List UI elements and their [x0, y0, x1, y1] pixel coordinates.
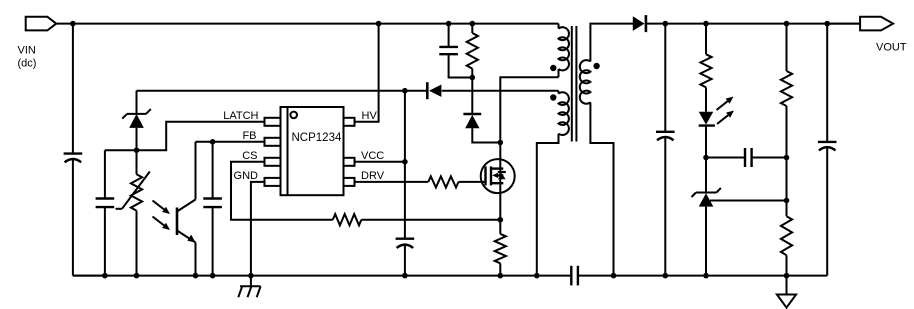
junction top rail at LED branch	[703, 21, 709, 27]
wire divider mid	[786, 106, 788, 216]
junction VCC node	[402, 159, 408, 165]
resistor R6 divider upper	[781, 71, 792, 106]
wire secondary bottom lead	[590, 102, 613, 275]
junction feedback cap node left	[703, 155, 709, 161]
junction bottom rail at aux return	[534, 273, 540, 279]
pin FB	[265, 138, 281, 146]
transformer core	[572, 26, 577, 142]
label VOUT	[876, 42, 907, 54]
capacitor C8 feedback	[745, 148, 752, 167]
junction top rail at divider	[784, 21, 790, 27]
wire output cap branch	[664, 24, 666, 276]
transformer aux winding	[559, 91, 569, 135]
junction feedback cap node right	[784, 155, 790, 161]
wire divider upper lead	[786, 24, 788, 71]
output terminal VOUT	[860, 17, 893, 31]
svg-text:VOUT: VOUT	[876, 42, 907, 54]
transformer secondary dot	[593, 63, 599, 69]
wire HV to top rail	[355, 24, 379, 122]
op IC U1 NCP1234 body	[281, 107, 344, 195]
label DRV	[361, 170, 385, 182]
IC U1 text NCP1234	[292, 132, 342, 144]
junction bottom rail at C3	[210, 273, 216, 279]
wire bottom rail secondary side	[578, 275, 827, 277]
opto light arrows	[153, 201, 171, 231]
transistor Q1 MOSFET	[481, 159, 515, 193]
pin CS	[265, 158, 281, 166]
shunt regulator TL431 D5	[692, 188, 721, 207]
capacitor C7 output (polarized)	[656, 132, 675, 141]
wire R5 to LED	[705, 87, 707, 111]
wire primary bottom lead	[558, 69, 560, 77]
wire TL431 anode to rail	[705, 207, 707, 276]
wire bottom rail primary side	[73, 275, 571, 277]
wire secondary top lead	[590, 24, 633, 62]
wire divider lower lead	[786, 255, 788, 275]
label VIN (dc)	[18, 45, 37, 70]
LED optocoupler diode	[699, 112, 715, 126]
junction top rail at snubber cap	[446, 21, 452, 27]
input terminal VIN	[26, 17, 57, 31]
wire to VOUT	[827, 23, 860, 25]
wire snubber R leads	[471, 24, 473, 78]
junction bottom rail at opto emitter	[193, 273, 199, 279]
wire FB pin run	[196, 141, 265, 143]
wire DRV pin run	[355, 181, 429, 183]
wire cap branch left	[104, 150, 106, 275]
capacitor C6 Y-cap	[571, 266, 578, 286]
wire clamp diode to drain	[472, 128, 500, 142]
junction top rail at cap2	[824, 21, 830, 27]
wire VCC riser	[404, 91, 406, 239]
transformer secondary winding	[580, 60, 591, 104]
LED light arrows	[717, 97, 735, 125]
junction aux line at VCC riser	[402, 88, 408, 94]
junction divider mid node	[784, 198, 790, 204]
diode D2 aux rectifier	[427, 82, 441, 99]
resistor R3 CS filter	[333, 214, 362, 225]
resistor R2 gate	[428, 176, 458, 187]
label LATCH	[223, 110, 258, 122]
junction source sense node	[498, 217, 504, 223]
svg-text:NCP1234: NCP1234	[292, 132, 342, 144]
wire aux line	[137, 90, 559, 92]
svg-text:(dc): (dc)	[18, 58, 37, 70]
junction drain node	[498, 140, 504, 146]
label GND	[234, 170, 259, 182]
pin LATCH	[265, 118, 281, 126]
junction bottom rail at C2	[102, 273, 108, 279]
zener diode OVP D1	[122, 109, 151, 128]
junction bottom rail at divider	[784, 273, 790, 279]
transformer primary winding	[559, 24, 569, 71]
svg-text:LATCH: LATCH	[223, 110, 258, 122]
pin DRV	[344, 178, 355, 186]
optocoupler phototransistor U2	[177, 142, 196, 276]
wire VCC pin run	[355, 161, 405, 163]
svg-text:CS: CS	[242, 150, 257, 162]
resistor R5 LED series	[700, 54, 711, 87]
wire CS to source node	[361, 219, 500, 221]
resistor R7 divider lower	[781, 216, 792, 255]
junction top rail at output cap	[663, 21, 669, 27]
wire gate	[459, 181, 487, 183]
wire sense leads	[499, 220, 501, 276]
capacitor C9 output 2 (polarized)	[818, 142, 837, 151]
wire VCC cap to rail	[404, 245, 406, 276]
svg-text:GND: GND	[234, 170, 259, 182]
label HV	[362, 110, 378, 122]
wire latch link	[105, 122, 265, 150]
label FB	[242, 130, 256, 142]
capacitor C3 on FB	[203, 199, 222, 208]
pin GND	[265, 178, 281, 186]
junction bottom rail at VCC cap	[402, 273, 408, 279]
wire top rail secondary	[646, 23, 860, 25]
junction top rail at snubber R	[470, 21, 476, 27]
junction top rail at HV riser	[376, 21, 382, 27]
junction bottom rail at sense R	[498, 273, 504, 279]
junction bottom rail at NTC	[134, 273, 140, 279]
label VCC	[361, 150, 384, 162]
wire LED to TL431	[705, 126, 707, 193]
resistor R4 sense	[495, 234, 506, 263]
wire cap2 branch	[826, 24, 828, 276]
wire snubber cap branch	[449, 24, 473, 78]
wire CS pin run	[231, 162, 333, 220]
thermistor NTC R8	[116, 172, 150, 211]
capacitor C4 VCC (polarized)	[396, 239, 415, 248]
wire TL431 ref	[710, 200, 787, 202]
junction FB cap node	[210, 139, 216, 145]
wire LED branch upper	[705, 24, 707, 55]
wire NTC to rail	[136, 211, 138, 276]
ground secondary symbol	[777, 276, 796, 308]
wire snubber node to clamp diode	[471, 78, 473, 115]
junction zener-latch node	[134, 147, 140, 153]
transformer aux dot	[550, 94, 556, 100]
transformer primary dot	[550, 65, 556, 71]
wire GND pin to rail	[251, 182, 265, 276]
svg-text:VCC: VCC	[361, 150, 384, 162]
junction bottom rail at secondary return	[611, 273, 617, 279]
svg-text:DRV: DRV	[361, 170, 385, 182]
svg-text:HV: HV	[362, 110, 378, 122]
ground chassis symbol	[238, 276, 260, 298]
wire zener top to aux line	[136, 91, 138, 114]
pin HV	[344, 118, 355, 126]
diode D4 output rectifier	[633, 15, 646, 32]
junction VIN node	[70, 21, 76, 27]
wire primary bottom to drain	[500, 77, 558, 220]
svg-text:FB: FB	[242, 130, 256, 142]
capacitor C5 snubber	[439, 47, 458, 54]
diode D3 clamp	[463, 114, 481, 128]
wire FB cap branch	[212, 142, 214, 276]
svg-text:VIN: VIN	[18, 45, 36, 57]
wire top rail primary (VIN to transformer)	[56, 23, 558, 25]
pin VCC	[344, 158, 355, 166]
wire bulk input branch	[73, 24, 105, 276]
resistor R1 snubber	[467, 33, 478, 69]
wire aux bottom lead	[537, 134, 559, 276]
junction bottom rail at TL431	[703, 273, 709, 279]
capacitor C2 latch filter	[96, 199, 115, 208]
capacitor bulk input (polarized)	[64, 154, 83, 163]
wire zener anode down	[136, 128, 138, 174]
label CS	[242, 150, 257, 162]
junction bottom rail at C7	[663, 273, 669, 279]
wire feedback cap left	[706, 157, 745, 159]
junction bottom rail at GND	[248, 273, 254, 279]
junction snubber node	[470, 75, 476, 81]
wire feedback cap right	[752, 157, 787, 159]
